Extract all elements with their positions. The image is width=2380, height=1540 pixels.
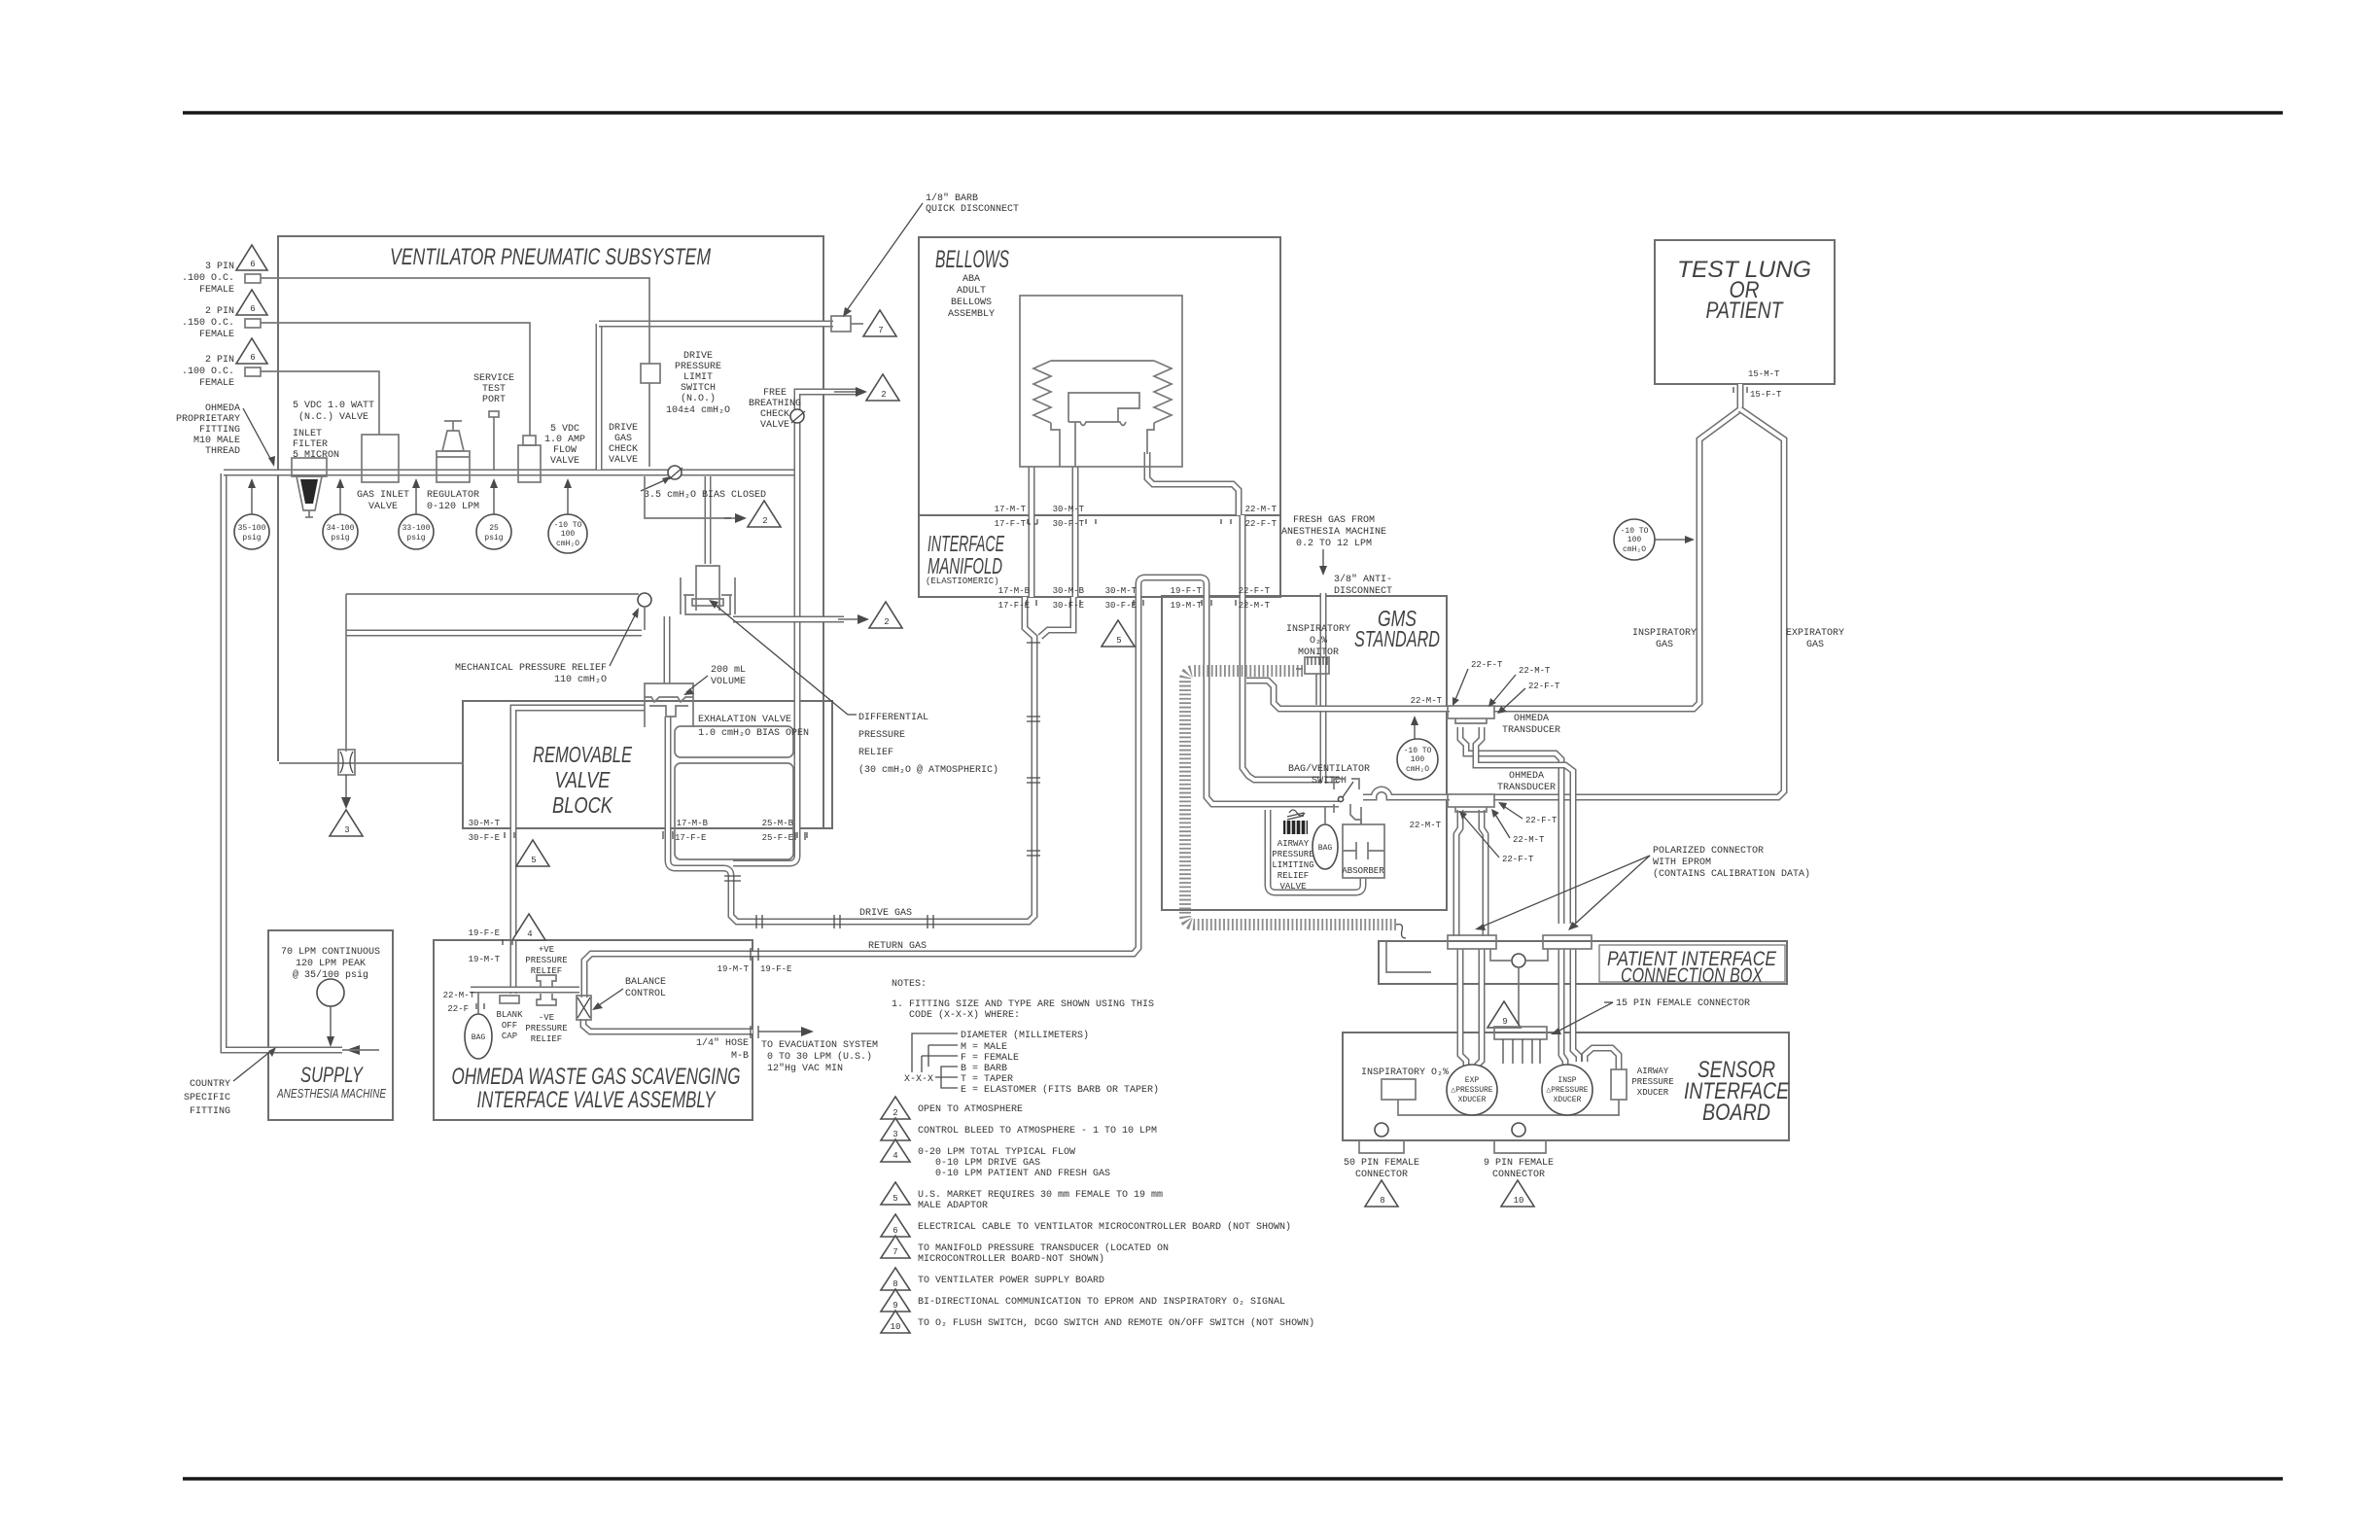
symbol: triangle 5 valve block <box>516 840 549 866</box>
label: 200 mL volume <box>683 665 746 695</box>
wire: expiratory gas run to test lung <box>1493 457 1784 797</box>
wire: J2 to flow valve <box>261 323 530 436</box>
wire: flow valve to drive top pipe riser <box>596 324 603 470</box>
wire: 22 pipe down to bag ventilator switch <box>1242 515 1339 780</box>
svg-text:psig: psig <box>484 534 503 542</box>
svg-text:VALVE: VALVE <box>555 767 612 792</box>
svg-text:MICROCONTROLLER BOARD-NOT SHOW: MICROCONTROLLER BOARD-NOT SHOWN) <box>918 1253 1104 1265</box>
svg-text:17-F-E: 17-F-E <box>998 601 1030 611</box>
svg-text:22-M-T: 22-M-T <box>1513 835 1545 845</box>
svg-text:LIMITING: LIMITING <box>1272 860 1313 870</box>
component: balance control valve <box>577 977 666 1020</box>
component: drive pressure limit switch <box>641 351 730 416</box>
component: adult bellows assembly <box>1020 296 1182 467</box>
label: 19-M-T 19-F-E return port <box>717 948 792 974</box>
svg-text:BI-DIRECTIONAL COMMUNICATION T: BI-DIRECTIONAL COMMUNICATION TO EPROM AN… <box>918 1297 1285 1308</box>
svg-text:22-M-T: 22-M-T <box>443 991 475 1000</box>
svg-text:CONTROL BLEED TO ATMOSPHERE -: CONTROL BLEED TO ATMOSPHERE - 1 TO 10 LP… <box>918 1126 1157 1137</box>
svg-text:psig: psig <box>331 534 349 542</box>
svg-text:22-M-T: 22-M-T <box>1410 821 1442 830</box>
wire: transducer2 down pipes to eprom connector <box>1456 810 1460 936</box>
svg-text:BREATHING: BREATHING <box>749 399 801 409</box>
wire: J1 to drive pressure limit switch <box>261 278 649 364</box>
svg-text:TO MANIFOLD PRESSURE TRANSDUCE: TO MANIFOLD PRESSURE TRANSDUCER (LOCATED… <box>918 1242 1169 1254</box>
svg-text:FEMALE: FEMALE <box>199 378 234 389</box>
label: valve block 30-M-T port <box>469 819 514 843</box>
svg-text:19-F-E: 19-F-E <box>760 964 791 974</box>
svg-text:REGULATOR: REGULATOR <box>427 490 479 501</box>
svg-text:ADULT: ADULT <box>957 286 986 297</box>
label: 17-M-T port <box>995 505 1037 529</box>
label: 22-M-T port upper <box>1221 505 1277 529</box>
svg-text:BLANK: BLANK <box>496 1010 523 1020</box>
label: 30-M-T port <box>1053 505 1096 529</box>
note triangle 9 <box>881 1289 1285 1312</box>
connector J2 2-pin <box>182 306 261 340</box>
svg-text:VOLUME: VOLUME <box>711 677 746 687</box>
svg-text:19-F-T: 19-F-T <box>1171 586 1203 596</box>
svg-text:INSPIRATORY: INSPIRATORY <box>1286 624 1350 635</box>
wire: DPLS to main line <box>648 383 650 467</box>
svg-text:17-F-E: 17-F-E <box>675 833 706 843</box>
wire: connector1 pipes through patient box to exp xducer <box>1460 949 1466 1066</box>
svg-text:34-100: 34-100 <box>327 524 355 533</box>
svg-text:INSPIRATORY O₂%: INSPIRATORY O₂% <box>1361 1067 1449 1078</box>
svg-text:120 LPM PEAK: 120 LPM PEAK <box>296 959 366 969</box>
svg-text:3 PIN: 3 PIN <box>205 262 234 272</box>
leader: 22-M-T transducer2 <box>1491 809 1545 845</box>
label: 17-M-B port <box>998 586 1031 611</box>
svg-text:GAS: GAS <box>614 434 632 444</box>
wire: drive gas down pipe <box>668 597 1034 922</box>
wire: transducer1 down pipes to eprom connector <box>1460 727 1561 924</box>
component: ohmeda transducer 1 <box>1448 706 1560 736</box>
note triangle 3 <box>881 1118 1157 1140</box>
svg-text:1/4" HOSE: 1/4" HOSE <box>696 1037 749 1049</box>
svg-text:22-M-T: 22-M-T <box>1239 601 1271 611</box>
svg-text:33-100: 33-100 <box>402 524 431 533</box>
box: GMS standard <box>1162 596 1447 910</box>
svg-text:(N.O.): (N.O.) <box>681 393 716 404</box>
svg-text:QUICK DISCONNECT: QUICK DISCONNECT <box>926 204 1019 215</box>
wire: differential relief outlet to atmosphere <box>733 616 844 623</box>
svg-text:4: 4 <box>527 929 532 939</box>
component: O2 sensor block <box>1382 1079 1620 1115</box>
svg-text:2: 2 <box>892 1108 897 1118</box>
label: valve block 17-M-B port <box>663 819 709 843</box>
svg-text:SWITCH: SWITCH <box>681 383 716 394</box>
svg-text:LIMIT: LIMIT <box>683 372 713 383</box>
svg-text:OHMEDA: OHMEDA <box>1509 771 1544 782</box>
svg-text:BELLOWS: BELLOWS <box>935 246 1009 273</box>
symbol: coupler at 25 port <box>795 832 805 840</box>
symbol: triangle 2 bias bleed <box>645 476 781 527</box>
svg-text:1.0 AMP: 1.0 AMP <box>544 435 585 445</box>
wire: free breathing pipe riser <box>733 392 856 863</box>
svg-text:OPEN TO ATMOSPHERE: OPEN TO ATMOSPHERE <box>918 1104 1023 1115</box>
svg-text:CHECK: CHECK <box>760 409 789 420</box>
label: 19-F-T port <box>1171 586 1203 611</box>
svg-text:DRIVE: DRIVE <box>683 351 713 362</box>
svg-text:MALE ADAPTOR: MALE ADAPTOR <box>918 1201 988 1211</box>
svg-text:9 PIN FEMALE: 9 PIN FEMALE <box>1484 1158 1554 1169</box>
svg-text:cmH₂O: cmH₂O <box>1406 765 1429 774</box>
svg-text:104±4 cmH₂O: 104±4 cmH₂O <box>666 405 730 416</box>
svg-text:(CONTAINS CALIBRATION DATA): (CONTAINS CALIBRATION DATA) <box>1653 868 1810 880</box>
wire: absorber bottom loop <box>1268 810 1363 892</box>
svg-text:AIRWAY: AIRWAY <box>1637 1067 1669 1076</box>
component: ohmeda transducer 2 <box>1448 771 1556 812</box>
svg-text:6: 6 <box>250 304 255 314</box>
svg-text:8: 8 <box>1380 1196 1384 1206</box>
note triangle 10 <box>881 1311 1314 1333</box>
component: scavenging bag <box>465 993 492 1059</box>
component: 9 pin female connector <box>1484 1123 1554 1180</box>
component: airway pressure limiting relief valve <box>1272 810 1313 892</box>
component: +ve pressure relief <box>525 945 567 1044</box>
svg-text:0-120 LPM: 0-120 LPM <box>427 502 479 512</box>
svg-text:0-10 LPM DRIVE GAS: 0-10 LPM DRIVE GAS <box>935 1158 1040 1169</box>
svg-text:XDUCER: XDUCER <box>1554 1096 1582 1104</box>
svg-text:MANIFOLD: MANIFOLD <box>927 553 1002 578</box>
wire: manifold internal channel 30 to 19 <box>1138 577 1207 597</box>
label: polarized connector with eprom <box>1475 846 1810 930</box>
svg-text:OHMEDA WASTE GAS SCAVENGING: OHMEDA WASTE GAS SCAVENGING <box>452 1064 741 1090</box>
svg-text:EXPIRATORY: EXPIRATORY <box>1786 628 1844 639</box>
label: ohmeda proprietary fitting <box>176 403 275 467</box>
svg-text:17-M-B: 17-M-B <box>677 819 709 828</box>
svg-text:(ELASTIOMERIC): (ELASTIOMERIC) <box>926 577 999 586</box>
svg-text:FLOW: FLOW <box>553 445 577 456</box>
svg-text:cmH₂O: cmH₂O <box>556 540 579 548</box>
svg-text:CONNECTOR: CONNECTOR <box>1355 1170 1408 1180</box>
svg-text:COUNTRY: COUNTRY <box>190 1079 230 1090</box>
label: 22-F-T bottom port <box>1239 586 1271 611</box>
symbol: triangle 4 scavenging <box>512 914 545 940</box>
svg-text:-10 TO: -10 TO <box>1404 747 1432 755</box>
svg-text:FREE: FREE <box>763 388 787 399</box>
svg-text:22-F: 22-F <box>447 1004 469 1014</box>
svg-text:15-F-T: 15-F-T <box>1750 390 1782 400</box>
svg-text:10: 10 <box>1514 1196 1524 1206</box>
svg-text:PRESSURE: PRESSURE <box>858 730 905 741</box>
svg-text:PRESSURE: PRESSURE <box>525 956 567 965</box>
svg-text:5 VDC 1.0 WATT: 5 VDC 1.0 WATT <box>293 401 374 411</box>
wire: coil end curl <box>1396 925 1406 938</box>
connector triangle 6 c <box>236 338 267 364</box>
svg-text:VALVE: VALVE <box>760 420 789 431</box>
svg-text:3: 3 <box>344 825 349 835</box>
symbol: triangle 9 <box>1487 1001 1521 1028</box>
label: expiratory gas <box>1786 628 1844 650</box>
component: flow valve V2 <box>518 424 585 482</box>
svg-text:9: 9 <box>1502 1017 1507 1027</box>
svg-text:ASSEMBLY: ASSEMBLY <box>948 309 995 320</box>
svg-text:FEMALE: FEMALE <box>199 285 234 296</box>
svg-text:RELIEF: RELIEF <box>531 966 562 976</box>
symbol: triangle 8 <box>1365 1180 1398 1207</box>
svg-text:XDUCER: XDUCER <box>1458 1096 1487 1104</box>
svg-text:TEST: TEST <box>482 384 506 395</box>
connector triangle 6 b <box>236 290 267 315</box>
bottom border rule <box>183 1477 2283 1480</box>
svg-text:-VE: -VE <box>539 1013 554 1023</box>
svg-text:0 TO 30 LPM (U.S.): 0 TO 30 LPM (U.S.) <box>767 1051 872 1063</box>
svg-text:22-M-T: 22-M-T <box>1519 666 1551 676</box>
box: bellows <box>919 237 1280 597</box>
svg-text:GAS: GAS <box>1656 640 1673 650</box>
component: absorber <box>1342 807 1384 878</box>
note triangle 2 <box>881 1097 1023 1119</box>
svg-text:30-M-B: 30-M-B <box>1053 586 1085 596</box>
component: quick disconnect <box>831 192 1019 332</box>
label: 3/8 anti-disconnect <box>1334 574 1392 597</box>
svg-text:110 cmH₂O: 110 cmH₂O <box>554 675 607 685</box>
wire: valve block bleed line riser <box>345 594 347 752</box>
box: sensor interface board <box>1343 1032 1790 1140</box>
svg-text:F = FEMALE: F = FEMALE <box>961 1053 1019 1064</box>
svg-text:THREAD: THREAD <box>205 446 240 457</box>
svg-text:GAS: GAS <box>1806 640 1824 650</box>
svg-text:T = TAPER: T = TAPER <box>961 1074 1013 1085</box>
svg-text:19-F-E: 19-F-E <box>469 928 500 938</box>
svg-text:100: 100 <box>1627 536 1642 544</box>
svg-text:CHECK: CHECK <box>609 444 638 455</box>
svg-text:8: 8 <box>892 1279 897 1289</box>
svg-text:25-F-E: 25-F-E <box>762 833 793 843</box>
leader: 22-F-T transducer2 b <box>1459 811 1534 864</box>
svg-text:M10 MALE: M10 MALE <box>193 436 240 446</box>
svg-text:BLOCK: BLOCK <box>552 792 613 818</box>
gauge: 25 psig <box>476 478 511 549</box>
svg-text:psig: psig <box>406 534 425 542</box>
svg-text:FITTING: FITTING <box>190 1106 230 1117</box>
wire: bellows middle pipe 30 port <box>1072 467 1079 597</box>
symbol: pipe couplers drive gas line <box>724 643 1040 928</box>
wire: inspiratory pipe monitor line <box>1246 681 1450 709</box>
wire: J3 to gas inlet valve <box>261 371 379 435</box>
component: supply flow circle <box>317 979 344 1047</box>
wire: compartment line to mech relief <box>346 593 639 595</box>
svg-text:RELIEF: RELIEF <box>531 1034 562 1044</box>
node: patient box junction <box>1386 941 1548 1027</box>
label: to evacuation system <box>761 1040 878 1074</box>
svg-text:VENTILATOR PNEUMATIC SUBSYSTEM: VENTILATOR PNEUMATIC SUBSYSTEM <box>390 244 711 270</box>
svg-text:1. FITTING SIZE AND TYPE ARE S: 1. FITTING SIZE AND TYPE ARE SHOWN USING… <box>892 999 1154 1010</box>
svg-text:MECHANICAL PRESSURE RELIEF: MECHANICAL PRESSURE RELIEF <box>455 663 607 674</box>
svg-text:TRANSDUCER: TRANSDUCER <box>1502 725 1560 736</box>
gauge: 34-100 psig <box>323 478 358 549</box>
svg-text:BELLOWS: BELLOWS <box>951 297 992 308</box>
svg-text:DIFFERENTIAL: DIFFERENTIAL <box>858 713 928 723</box>
label: interface manifold <box>926 531 1004 586</box>
component: polarized connector 2 <box>1543 935 1592 949</box>
svg-text:PRESSURE: PRESSURE <box>675 362 721 372</box>
svg-text:30-F-T: 30-F-T <box>1053 519 1085 529</box>
svg-text:NOTES:: NOTES: <box>892 979 927 990</box>
svg-text:30-M-T: 30-M-T <box>469 819 501 828</box>
svg-text:0.2 TO 12 LPM: 0.2 TO 12 LPM <box>1296 539 1372 549</box>
svg-text:AIRWAY: AIRWAY <box>1277 839 1310 849</box>
svg-text:22-M-T: 22-M-T <box>1245 505 1277 514</box>
svg-text:30-F-E: 30-F-E <box>469 833 500 843</box>
svg-text:6: 6 <box>892 1226 897 1236</box>
svg-text:100: 100 <box>1411 755 1425 764</box>
svg-text:PRESSURE: PRESSURE <box>525 1024 567 1033</box>
component: gas inlet valve V1 <box>293 401 409 512</box>
svg-text:SPECIFIC: SPECIFIC <box>184 1093 230 1103</box>
svg-text:DRIVE: DRIVE <box>609 423 638 434</box>
wire: differential relief to exhalation valve <box>664 616 671 683</box>
leader: 22-F-T transducer2 a <box>1498 802 1557 825</box>
svg-text:DISCONNECT: DISCONNECT <box>1334 586 1392 597</box>
svg-text:10: 10 <box>891 1322 901 1332</box>
svg-text:RELIEF: RELIEF <box>858 748 893 758</box>
svg-text:VALVE: VALVE <box>368 502 398 512</box>
svg-text:EXHALATION VALVE: EXHALATION VALVE <box>698 715 791 725</box>
wire: 19 port pipe to switch lower line <box>1207 597 1339 804</box>
box: supply anesthesia machine <box>268 930 393 1120</box>
svg-text:35-100: 35-100 <box>238 524 266 533</box>
connector J1 3-pin <box>182 262 261 296</box>
svg-text:BAG: BAG <box>1318 844 1333 853</box>
svg-text:M-B: M-B <box>731 1051 749 1062</box>
svg-text:TO EVACUATION SYSTEM: TO EVACUATION SYSTEM <box>761 1040 878 1051</box>
svg-text:19-M-T: 19-M-T <box>1171 601 1203 611</box>
component: exhalation valve <box>645 683 809 739</box>
wire: mechanical relief pipe <box>346 630 642 637</box>
svg-text:PRESSURE: PRESSURE <box>1272 850 1313 859</box>
svg-text:22-F-T: 22-F-T <box>1525 816 1557 825</box>
line: interface manifold boundary <box>919 514 1280 516</box>
symbol: triangle 3 control bleed <box>330 775 363 836</box>
label: 3.5 cmH2O bias closed <box>641 476 766 501</box>
component: service test port <box>473 373 514 470</box>
wire: corrugated hose coil <box>1185 671 1396 925</box>
svg-text:BALANCE: BALANCE <box>625 977 666 988</box>
gauge: -10 to 100 cmH2O <box>548 478 587 553</box>
svg-text:100: 100 <box>561 530 576 539</box>
wire: evacuation outlet arrow <box>751 1026 814 1038</box>
svg-text:BAG: BAG <box>472 1033 486 1042</box>
svg-text:5: 5 <box>531 856 536 865</box>
svg-text:2 PIN: 2 PIN <box>205 306 234 317</box>
box: removable valve block <box>463 701 832 828</box>
svg-text:ELECTRICAL CABLE TO VENTILATOR: ELECTRICAL CABLE TO VENTILATOR MICROCONT… <box>918 1221 1291 1233</box>
svg-text:.150 O.C.: .150 O.C. <box>182 318 234 329</box>
component: X control valve <box>338 750 355 775</box>
symbol: triangle 5 manifold <box>1102 620 1135 647</box>
svg-text:9: 9 <box>892 1301 897 1311</box>
svg-text:-10 TO: -10 TO <box>554 521 582 530</box>
svg-text:WITH EPROM: WITH EPROM <box>1653 857 1711 868</box>
svg-text:BOARD: BOARD <box>1702 1100 1770 1126</box>
label: differential pressure relief <box>709 600 998 776</box>
svg-text:M = MALE: M = MALE <box>961 1042 1007 1053</box>
svg-text:19-M-T: 19-M-T <box>717 964 750 974</box>
wire: bleed line through X valve <box>279 762 464 764</box>
wire: bellows left pipe 17 port <box>1029 467 1035 597</box>
leader: 22-M-T transducer1 <box>1488 666 1551 707</box>
svg-text:DRIVE GAS: DRIVE GAS <box>859 908 912 919</box>
label: 15-M-T port <box>1733 369 1782 400</box>
component: valve block lower seat box <box>675 763 793 859</box>
svg-text:7: 7 <box>892 1247 897 1257</box>
svg-text:0-10 LPM PATIENT AND FRESH GAS: 0-10 LPM PATIENT AND FRESH GAS <box>935 1169 1110 1179</box>
component: bag <box>1312 807 1338 869</box>
connector triangle 6 a <box>236 245 267 270</box>
svg-text:-10 TO: -10 TO <box>1621 527 1649 536</box>
svg-text:22-M-T: 22-M-T <box>1411 696 1443 706</box>
svg-text:XDUCER: XDUCER <box>1637 1088 1669 1098</box>
svg-text:(30 cmH₂O @ ATMOSPHERIC): (30 cmH₂O @ ATMOSPHERIC) <box>858 764 998 776</box>
svg-text:25-M-B: 25-M-B <box>762 819 794 828</box>
svg-text:6: 6 <box>250 353 255 363</box>
svg-text:22-F-T: 22-F-T <box>1239 586 1271 596</box>
svg-text:50 PIN FEMALE: 50 PIN FEMALE <box>1344 1158 1419 1169</box>
svg-text:22-F-T: 22-F-T <box>1245 519 1277 529</box>
svg-text:△PRESSURE: △PRESSURE <box>1451 1086 1492 1095</box>
svg-text:200 mL: 200 mL <box>711 665 746 676</box>
wire: inspiratory gas run to test lung <box>1493 457 1699 709</box>
svg-text:X-X-X: X-X-X <box>904 1074 933 1085</box>
svg-text:+VE: +VE <box>539 945 554 955</box>
svg-text:70 LPM CONTINUOUS: 70 LPM CONTINUOUS <box>281 947 380 958</box>
svg-text:22-F-T: 22-F-T <box>1502 855 1534 864</box>
svg-text:30-M-T: 30-M-T <box>1053 505 1085 514</box>
svg-text:17-F-T: 17-F-T <box>995 519 1027 529</box>
svg-text:5: 5 <box>892 1194 897 1204</box>
svg-text:INSP: INSP <box>1557 1076 1576 1085</box>
leader: 22-F-T transducer1 right <box>1497 682 1560 714</box>
component: free breathing check valve <box>749 388 805 431</box>
svg-text:FITTING: FITTING <box>199 425 240 436</box>
svg-text:1/8" BARB: 1/8" BARB <box>926 192 978 204</box>
wire: switch outlet to transducer two <box>1363 789 1450 797</box>
svg-text:CONTROL: CONTROL <box>625 989 666 999</box>
label: 19-F-E inlet port <box>469 928 512 964</box>
wire: drive gas branch to 30-M-B port <box>1040 597 1073 637</box>
component: inlet filter F1 <box>292 429 339 517</box>
label: valve block 25-M-B port <box>762 819 807 843</box>
svg-text:0-20 LPM TOTAL TYPICAL FLOW: 0-20 LPM TOTAL TYPICAL FLOW <box>918 1147 1075 1158</box>
svg-text:CONNECTION BOX: CONNECTION BOX <box>1621 964 1764 987</box>
svg-text:VALVE: VALVE <box>1279 882 1306 892</box>
symbol: triangle 2 free breathing <box>834 374 899 401</box>
svg-text:RETURN GAS: RETURN GAS <box>868 941 927 952</box>
svg-text:.100 O.C.: .100 O.C. <box>182 367 234 377</box>
wire: scavenging inlet pipe horizontal <box>471 987 579 994</box>
svg-text:STANDARD: STANDARD <box>1354 626 1440 651</box>
svg-text:FEMALE: FEMALE <box>199 330 234 340</box>
label: 22-M-T 22-F scavenging <box>443 991 484 1014</box>
svg-text:U.S. MARKET REQUIRES 30 mm FEM: U.S. MARKET REQUIRES 30 mm FEMALE TO 19 … <box>918 1190 1163 1201</box>
svg-text:1.0 cmH₂O BIAS OPEN: 1.0 cmH₂O BIAS OPEN <box>698 728 809 739</box>
component: regulator R1 <box>427 421 479 512</box>
svg-text:CONNECTOR: CONNECTOR <box>1492 1170 1545 1180</box>
svg-text:DIAMETER (MILLIMETERS): DIAMETER (MILLIMETERS) <box>961 1030 1089 1041</box>
svg-text:22-F-T: 22-F-T <box>1528 682 1560 691</box>
wire: return gas pipe <box>584 597 1138 997</box>
label: country specific fitting <box>184 1047 276 1117</box>
svg-text:17-M-B: 17-M-B <box>998 586 1031 596</box>
wire: test lung wye right <box>1740 409 1784 457</box>
svg-text:30-F-E: 30-F-E <box>1053 601 1084 611</box>
svg-text:PROPRIETARY: PROPRIETARY <box>176 414 240 425</box>
svg-text:INSPIRATORY: INSPIRATORY <box>1632 628 1697 639</box>
svg-text:25: 25 <box>489 524 499 533</box>
label: fresh gas from anesthesia machine <box>1281 515 1386 576</box>
